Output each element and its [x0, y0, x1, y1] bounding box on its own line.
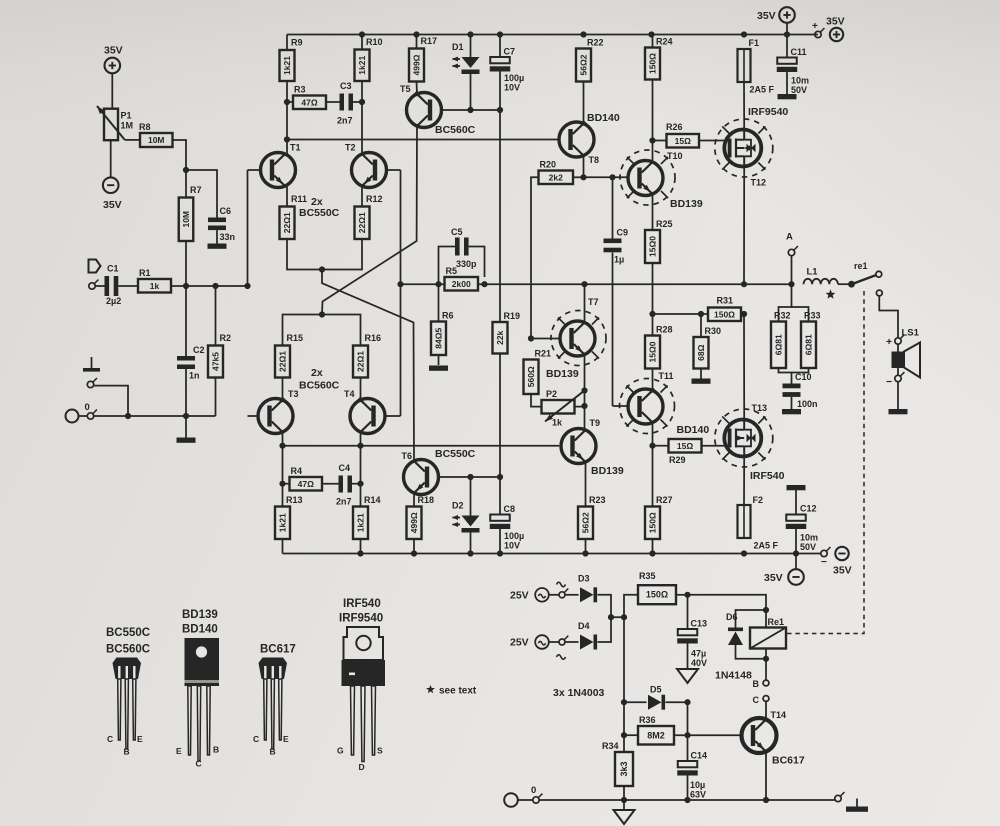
resistor R24 150ohm	[645, 48, 660, 80]
svg-text:R7: R7	[190, 185, 202, 195]
svg-text:BD140: BD140	[182, 624, 218, 636]
wire T4 base	[385, 415, 401, 417]
svg-text:R2: R2	[220, 333, 232, 343]
svg-text:0: 0	[85, 402, 90, 413]
transistor T4 BC560C	[350, 399, 385, 434]
svg-text:63V: 63V	[690, 790, 706, 800]
resistor R21 560ohm	[524, 360, 539, 395]
svg-text:R14: R14	[364, 495, 381, 505]
resistor R14 1k21	[353, 507, 368, 540]
wire T14 emitter	[765, 752, 767, 801]
fuse F2 2A5	[743, 505, 745, 539]
svg-text:R18: R18	[418, 495, 435, 505]
relay coil Re1	[750, 628, 786, 649]
transistor T10 BD139	[628, 161, 663, 196]
wire	[700, 314, 702, 337]
svg-text:BC617: BC617	[260, 644, 296, 656]
svg-text:25V: 25V	[510, 590, 529, 602]
resistor R29 15ohm	[669, 439, 702, 453]
terminal -35V output	[821, 550, 827, 556]
svg-text:BC550C: BC550C	[299, 207, 340, 219]
svg-text:150Ω: 150Ω	[714, 309, 735, 319]
wire T11 emitter to R28	[652, 369, 654, 391]
MOSFET T13 IRF540	[724, 420, 761, 457]
wire D6	[736, 610, 767, 628]
capacitor C4 2n7	[339, 476, 344, 493]
wire R35 right	[676, 594, 688, 596]
svg-text:0: 0	[531, 785, 536, 796]
svg-text:68Ω: 68Ω	[696, 344, 706, 360]
svg-text:R33: R33	[804, 311, 821, 321]
resistor R5 2k00	[445, 277, 479, 291]
svg-text:C10: C10	[795, 372, 812, 382]
wire T1 base column	[248, 169, 261, 171]
wire	[652, 539, 654, 554]
svg-text:D: D	[359, 762, 365, 772]
wire T2 base	[386, 169, 400, 171]
resistor R10 1k21	[355, 50, 370, 82]
svg-text:150Ω: 150Ω	[648, 512, 658, 533]
chassis symbol	[856, 799, 858, 807]
svg-text:R25: R25	[656, 219, 673, 229]
svg-text:R11: R11	[291, 194, 307, 204]
svg-text:10V: 10V	[504, 83, 520, 93]
svg-text:R36: R36	[639, 715, 656, 725]
svg-text:15Ω: 15Ω	[677, 441, 693, 451]
svg-text:BC560C: BC560C	[435, 124, 476, 136]
wire	[322, 483, 339, 485]
svg-text:50V: 50V	[800, 542, 816, 552]
svg-text:F2: F2	[753, 495, 764, 505]
svg-text:C14: C14	[691, 751, 708, 761]
wire	[795, 529, 797, 554]
svg-text:−: −	[886, 376, 892, 388]
svg-text:1µ: 1µ	[614, 255, 624, 265]
svg-text:T11: T11	[659, 371, 674, 381]
ground under C2	[185, 416, 187, 438]
resistor R34 3k3	[615, 752, 633, 786]
wire	[786, 23, 788, 35]
terminal chassis right	[835, 795, 841, 801]
svg-text:2n7: 2n7	[336, 497, 352, 507]
wire R21 to P2	[531, 394, 542, 407]
svg-text:D2: D2	[452, 501, 464, 511]
svg-text:P1: P1	[121, 111, 132, 121]
wire supply center column	[624, 595, 638, 752]
svg-text:56Ω2: 56Ω2	[581, 512, 591, 533]
svg-text:D5: D5	[650, 685, 662, 695]
capacitor C14 10u	[687, 702, 689, 761]
svg-text:22Ω1: 22Ω1	[278, 351, 288, 372]
wire	[185, 369, 187, 416]
svg-text:Re1: Re1	[768, 617, 785, 627]
wire T5 base line	[442, 109, 500, 111]
svg-text:BD140: BD140	[677, 424, 710, 436]
node lower tail	[319, 311, 325, 317]
wire R10 to T2 collector	[361, 35, 363, 50]
wire R29	[653, 445, 669, 447]
wire T4 emitter	[360, 378, 362, 401]
wire T11 collector	[652, 423, 654, 507]
svg-text:33n: 33n	[220, 232, 236, 242]
resistor R23 56ohm2	[578, 507, 593, 540]
wire input node	[171, 285, 248, 287]
svg-text:T14: T14	[771, 710, 787, 720]
resistor R30 68ohm	[694, 337, 709, 369]
svg-text:35V: 35V	[103, 199, 122, 211]
wire	[215, 286, 217, 346]
svg-text:R35: R35	[639, 571, 656, 581]
svg-text:C4: C4	[339, 463, 351, 473]
resistor R31 150ohm	[708, 308, 741, 322]
input connector symbol	[89, 260, 101, 273]
svg-text:R24: R24	[656, 37, 673, 47]
svg-text:S: S	[377, 746, 383, 756]
potentiometer P1 1M	[104, 109, 118, 141]
transistor T3 BC560C	[258, 399, 293, 434]
input ground rail	[128, 415, 216, 417]
svg-text:R3: R3	[294, 85, 306, 95]
svg-text:2n7: 2n7	[337, 116, 353, 126]
svg-text:C13: C13	[691, 619, 708, 629]
wire T3 emitter	[282, 378, 284, 401]
wire T11 base	[613, 405, 630, 407]
svg-text:C: C	[107, 734, 113, 744]
svg-text:25V: 25V	[510, 637, 529, 649]
wire R8 to node	[125, 139, 141, 141]
resistor R26 15ohm	[667, 134, 700, 148]
wire T12 source to F1	[743, 82, 745, 129]
capacitor C9 1u	[612, 177, 614, 238]
wire	[361, 186, 363, 207]
supply ground rail	[539, 799, 834, 801]
wire	[653, 140, 667, 142]
wire	[499, 529, 501, 554]
svg-text:47µ: 47µ	[691, 649, 706, 659]
relay contact re1	[848, 281, 855, 288]
svg-text:BD139: BD139	[182, 609, 218, 621]
resistor R1 1k	[138, 279, 171, 293]
svg-text:2A5 F: 2A5 F	[750, 85, 775, 95]
svg-text:IRF540: IRF540	[343, 598, 381, 610]
transistor T5 BC560C	[407, 93, 442, 128]
svg-text:100µ: 100µ	[504, 73, 524, 83]
wire	[111, 73, 113, 108]
svg-text:2A5 F: 2A5 F	[754, 541, 779, 551]
wire	[897, 344, 899, 351]
wire lower collector rail	[282, 432, 284, 446]
wire R9 to T1 collector	[286, 81, 288, 154]
node upper tail	[319, 266, 325, 272]
svg-text:BC550C: BC550C	[106, 627, 150, 639]
svg-text:F1: F1	[749, 38, 760, 48]
ground C13 (triangle)	[687, 644, 689, 670]
svg-text:10m: 10m	[800, 533, 818, 543]
jumper contacts B C	[763, 680, 769, 686]
wire T8 emitter	[583, 156, 585, 178]
wire	[791, 256, 793, 285]
svg-text:R21: R21	[535, 349, 552, 359]
wire P2 right	[575, 406, 585, 408]
wire	[652, 35, 654, 48]
contact lower	[876, 290, 882, 296]
wire zobel bottom	[779, 368, 809, 373]
svg-text:C: C	[753, 695, 760, 705]
ground C10	[782, 409, 801, 414]
transistor T11 BD140	[628, 389, 663, 424]
svg-text:1k21: 1k21	[357, 56, 367, 75]
power terminal -35V (supply)	[795, 554, 797, 570]
svg-text:R1: R1	[139, 268, 151, 278]
svg-text:LS1: LS1	[902, 328, 920, 339]
svg-text:499Ω: 499Ω	[409, 512, 419, 533]
resistor R16 22ohm1	[353, 346, 368, 378]
wire	[598, 595, 612, 617]
svg-text:2k00: 2k00	[452, 279, 471, 289]
svg-text:R16: R16	[365, 333, 382, 343]
svg-text:R20: R20	[540, 160, 557, 170]
svg-text:E: E	[283, 734, 289, 744]
svg-text:47Ω: 47Ω	[298, 479, 314, 489]
svg-text:R29: R29	[669, 455, 686, 465]
svg-text:B: B	[213, 745, 219, 755]
svg-text:100n: 100n	[797, 399, 818, 409]
wire	[283, 483, 290, 485]
ground R30	[692, 379, 711, 384]
svg-text:22Ω1: 22Ω1	[357, 212, 367, 233]
svg-text:1N4148: 1N4148	[715, 670, 752, 682]
resistor R11 22ohm1	[280, 207, 295, 240]
svg-text:E: E	[176, 746, 182, 756]
svg-text:40V: 40V	[691, 658, 707, 668]
wire	[416, 35, 418, 49]
svg-text:8M2: 8M2	[647, 730, 665, 740]
svg-text:R10: R10	[366, 37, 383, 47]
wire	[94, 386, 128, 416]
capacitor C13 47u	[687, 595, 689, 629]
svg-text:BD139: BD139	[591, 465, 624, 477]
svg-text:BD140: BD140	[587, 112, 620, 124]
resistor R4 47ohm	[290, 477, 323, 491]
capacitor C8 100u	[499, 477, 501, 515]
svg-text:T6: T6	[402, 451, 413, 461]
svg-text:C11: C11	[791, 47, 807, 57]
svg-text:R17: R17	[421, 36, 438, 46]
svg-text:2k2: 2k2	[549, 172, 563, 182]
svg-text:B: B	[753, 679, 760, 689]
terminal 0 (supply)	[504, 793, 518, 807]
svg-text:R6: R6	[442, 311, 454, 321]
ground triangle supply	[623, 800, 625, 810]
svg-text:47k5: 47k5	[211, 352, 221, 371]
footnote see text	[426, 685, 435, 693]
svg-text:C12: C12	[800, 504, 817, 514]
wire T7 collector to rail	[584, 284, 586, 322]
wire	[360, 446, 362, 507]
wire -35V bottom rail	[283, 553, 821, 555]
svg-text:D3: D3	[578, 574, 590, 584]
svg-text:B: B	[124, 747, 130, 757]
capacitor C2 1n	[185, 286, 187, 356]
wire R20 right node	[573, 176, 584, 178]
wire T6 emitter	[413, 493, 415, 507]
svg-text:C6: C6	[220, 206, 232, 216]
wire	[413, 539, 415, 554]
svg-text:T2: T2	[345, 143, 356, 153]
svg-text:R9: R9	[291, 38, 303, 48]
wire T8 collector	[583, 82, 585, 125]
svg-text:C: C	[196, 759, 202, 769]
svg-text:R13: R13	[286, 495, 303, 505]
svg-text:BC560C: BC560C	[106, 644, 150, 656]
ground LS1	[889, 409, 908, 414]
svg-text:R8: R8	[139, 122, 151, 132]
wire	[612, 253, 614, 407]
svg-text:BC560C: BC560C	[299, 380, 340, 392]
svg-text:R23: R23	[589, 495, 606, 505]
svg-text:22k: 22k	[495, 330, 505, 344]
svg-text:35V: 35V	[764, 572, 783, 584]
resistor R20 2k2	[539, 171, 574, 185]
chassis symbol near input	[91, 357, 93, 368]
capacitor C12 10m	[787, 485, 806, 490]
svg-text:100µ: 100µ	[504, 531, 524, 541]
wire	[110, 140, 112, 177]
svg-text:R4: R4	[291, 466, 303, 476]
svg-text:T8: T8	[589, 155, 600, 165]
wire	[185, 170, 187, 198]
svg-text:+: +	[886, 336, 892, 348]
wire base rail to T8	[287, 139, 559, 141]
svg-text:T4: T4	[344, 389, 355, 399]
svg-text:499Ω: 499Ω	[412, 54, 422, 75]
wire	[470, 533, 472, 554]
svg-text:see text: see text	[439, 686, 477, 697]
wire T12 drain to output	[743, 167, 745, 284]
svg-text:C8: C8	[504, 504, 516, 514]
svg-text:1k: 1k	[552, 418, 563, 428]
resistor R17 499ohm	[409, 49, 424, 82]
svg-text:1k21: 1k21	[282, 56, 292, 75]
fuse F1 2A5	[743, 49, 745, 83]
resistor R19 22k	[493, 322, 508, 354]
svg-text:C1: C1	[107, 264, 119, 274]
wire	[838, 283, 849, 285]
star footnote mark	[826, 289, 836, 298]
junction dots bottom rail	[357, 550, 363, 556]
svg-text:35V: 35V	[826, 16, 845, 28]
wire	[585, 539, 587, 554]
svg-text:10µ: 10µ	[690, 780, 705, 790]
resistor R33 6ohm81	[801, 322, 816, 369]
capacitor C7 100u	[499, 35, 501, 58]
svg-text:22Ω1: 22Ω1	[356, 351, 366, 372]
resistor R7 10M	[179, 198, 194, 242]
svg-text:BD139: BD139	[670, 198, 703, 210]
svg-text:15Ω0: 15Ω0	[648, 341, 658, 362]
wire R20 left to T7 base	[531, 177, 539, 338]
svg-text:1k21: 1k21	[356, 513, 366, 532]
wire	[353, 101, 362, 103]
ground C6	[216, 230, 218, 243]
input terminal	[89, 283, 95, 289]
dashed mechanical link relay	[787, 291, 865, 634]
svg-text:A: A	[786, 232, 793, 243]
capacitor C6 33n	[186, 170, 217, 218]
resistor R3 47ohm	[293, 96, 326, 110]
wire	[287, 101, 293, 103]
svg-text:50V: 50V	[791, 85, 807, 95]
wire T7 emitter	[584, 355, 586, 431]
wire T13 source to F2	[743, 457, 745, 505]
transistor T6 BC550C	[404, 460, 439, 495]
wire	[286, 186, 288, 207]
svg-text:150Ω: 150Ω	[646, 590, 668, 600]
svg-text:T5: T5	[400, 84, 411, 94]
potentiometer P2 1k	[542, 400, 575, 414]
svg-text:150Ω: 150Ω	[648, 53, 658, 74]
wire T9 emitter	[585, 462, 587, 507]
wire	[470, 74, 472, 110]
svg-text:−: −	[821, 557, 827, 568]
svg-text:BC617: BC617	[772, 755, 805, 767]
wire	[765, 701, 767, 719]
wire T10 emitter	[652, 194, 654, 230]
svg-text:T7: T7	[588, 297, 599, 307]
svg-text:330p: 330p	[456, 259, 477, 269]
wire to speaker	[879, 296, 898, 338]
resistor R15 22ohm1	[275, 346, 290, 378]
svg-text:R27: R27	[656, 495, 673, 505]
svg-text:3k3: 3k3	[619, 761, 629, 776]
svg-text:IRF540: IRF540	[750, 470, 785, 482]
capacitor C5 330p	[439, 247, 456, 285]
wire	[791, 397, 793, 409]
svg-text:C2: C2	[193, 345, 205, 355]
svg-text:1n: 1n	[189, 371, 200, 381]
transistor T2 BC550C	[352, 153, 387, 188]
wire zobel top	[779, 284, 792, 321]
resistor R35 150ohm	[638, 585, 676, 604]
svg-text:15Ω0: 15Ω0	[648, 236, 658, 257]
junction dots on +35V rail	[359, 31, 365, 37]
svg-text:C7: C7	[504, 47, 516, 57]
resistor R9 1k21	[280, 50, 295, 81]
svg-text:P2: P2	[546, 389, 557, 399]
svg-text:T1: T1	[290, 143, 301, 153]
shield terminal	[87, 381, 93, 387]
svg-text:C3: C3	[340, 81, 352, 91]
wire	[687, 776, 689, 801]
svg-text:2µ2: 2µ2	[106, 296, 121, 306]
svg-text:re1: re1	[854, 261, 868, 271]
wire	[652, 263, 654, 314]
wire driver mid rail	[653, 313, 709, 315]
svg-text:84Ω5: 84Ω5	[434, 327, 444, 348]
svg-text:R30: R30	[705, 326, 722, 336]
resistor R12 22ohm1	[355, 207, 370, 240]
wire upper tail to T6 collector (diagonal)	[322, 270, 414, 461]
svg-text:35V: 35V	[104, 45, 123, 57]
svg-text:1k21: 1k21	[278, 513, 288, 532]
svg-text:B: B	[270, 747, 276, 757]
svg-text:R12: R12	[366, 194, 383, 204]
wire rectified node	[598, 617, 612, 642]
wire	[549, 594, 559, 596]
svg-text:C9: C9	[617, 228, 629, 238]
wire T7 base node	[531, 338, 560, 340]
svg-text:10M: 10M	[181, 211, 191, 228]
